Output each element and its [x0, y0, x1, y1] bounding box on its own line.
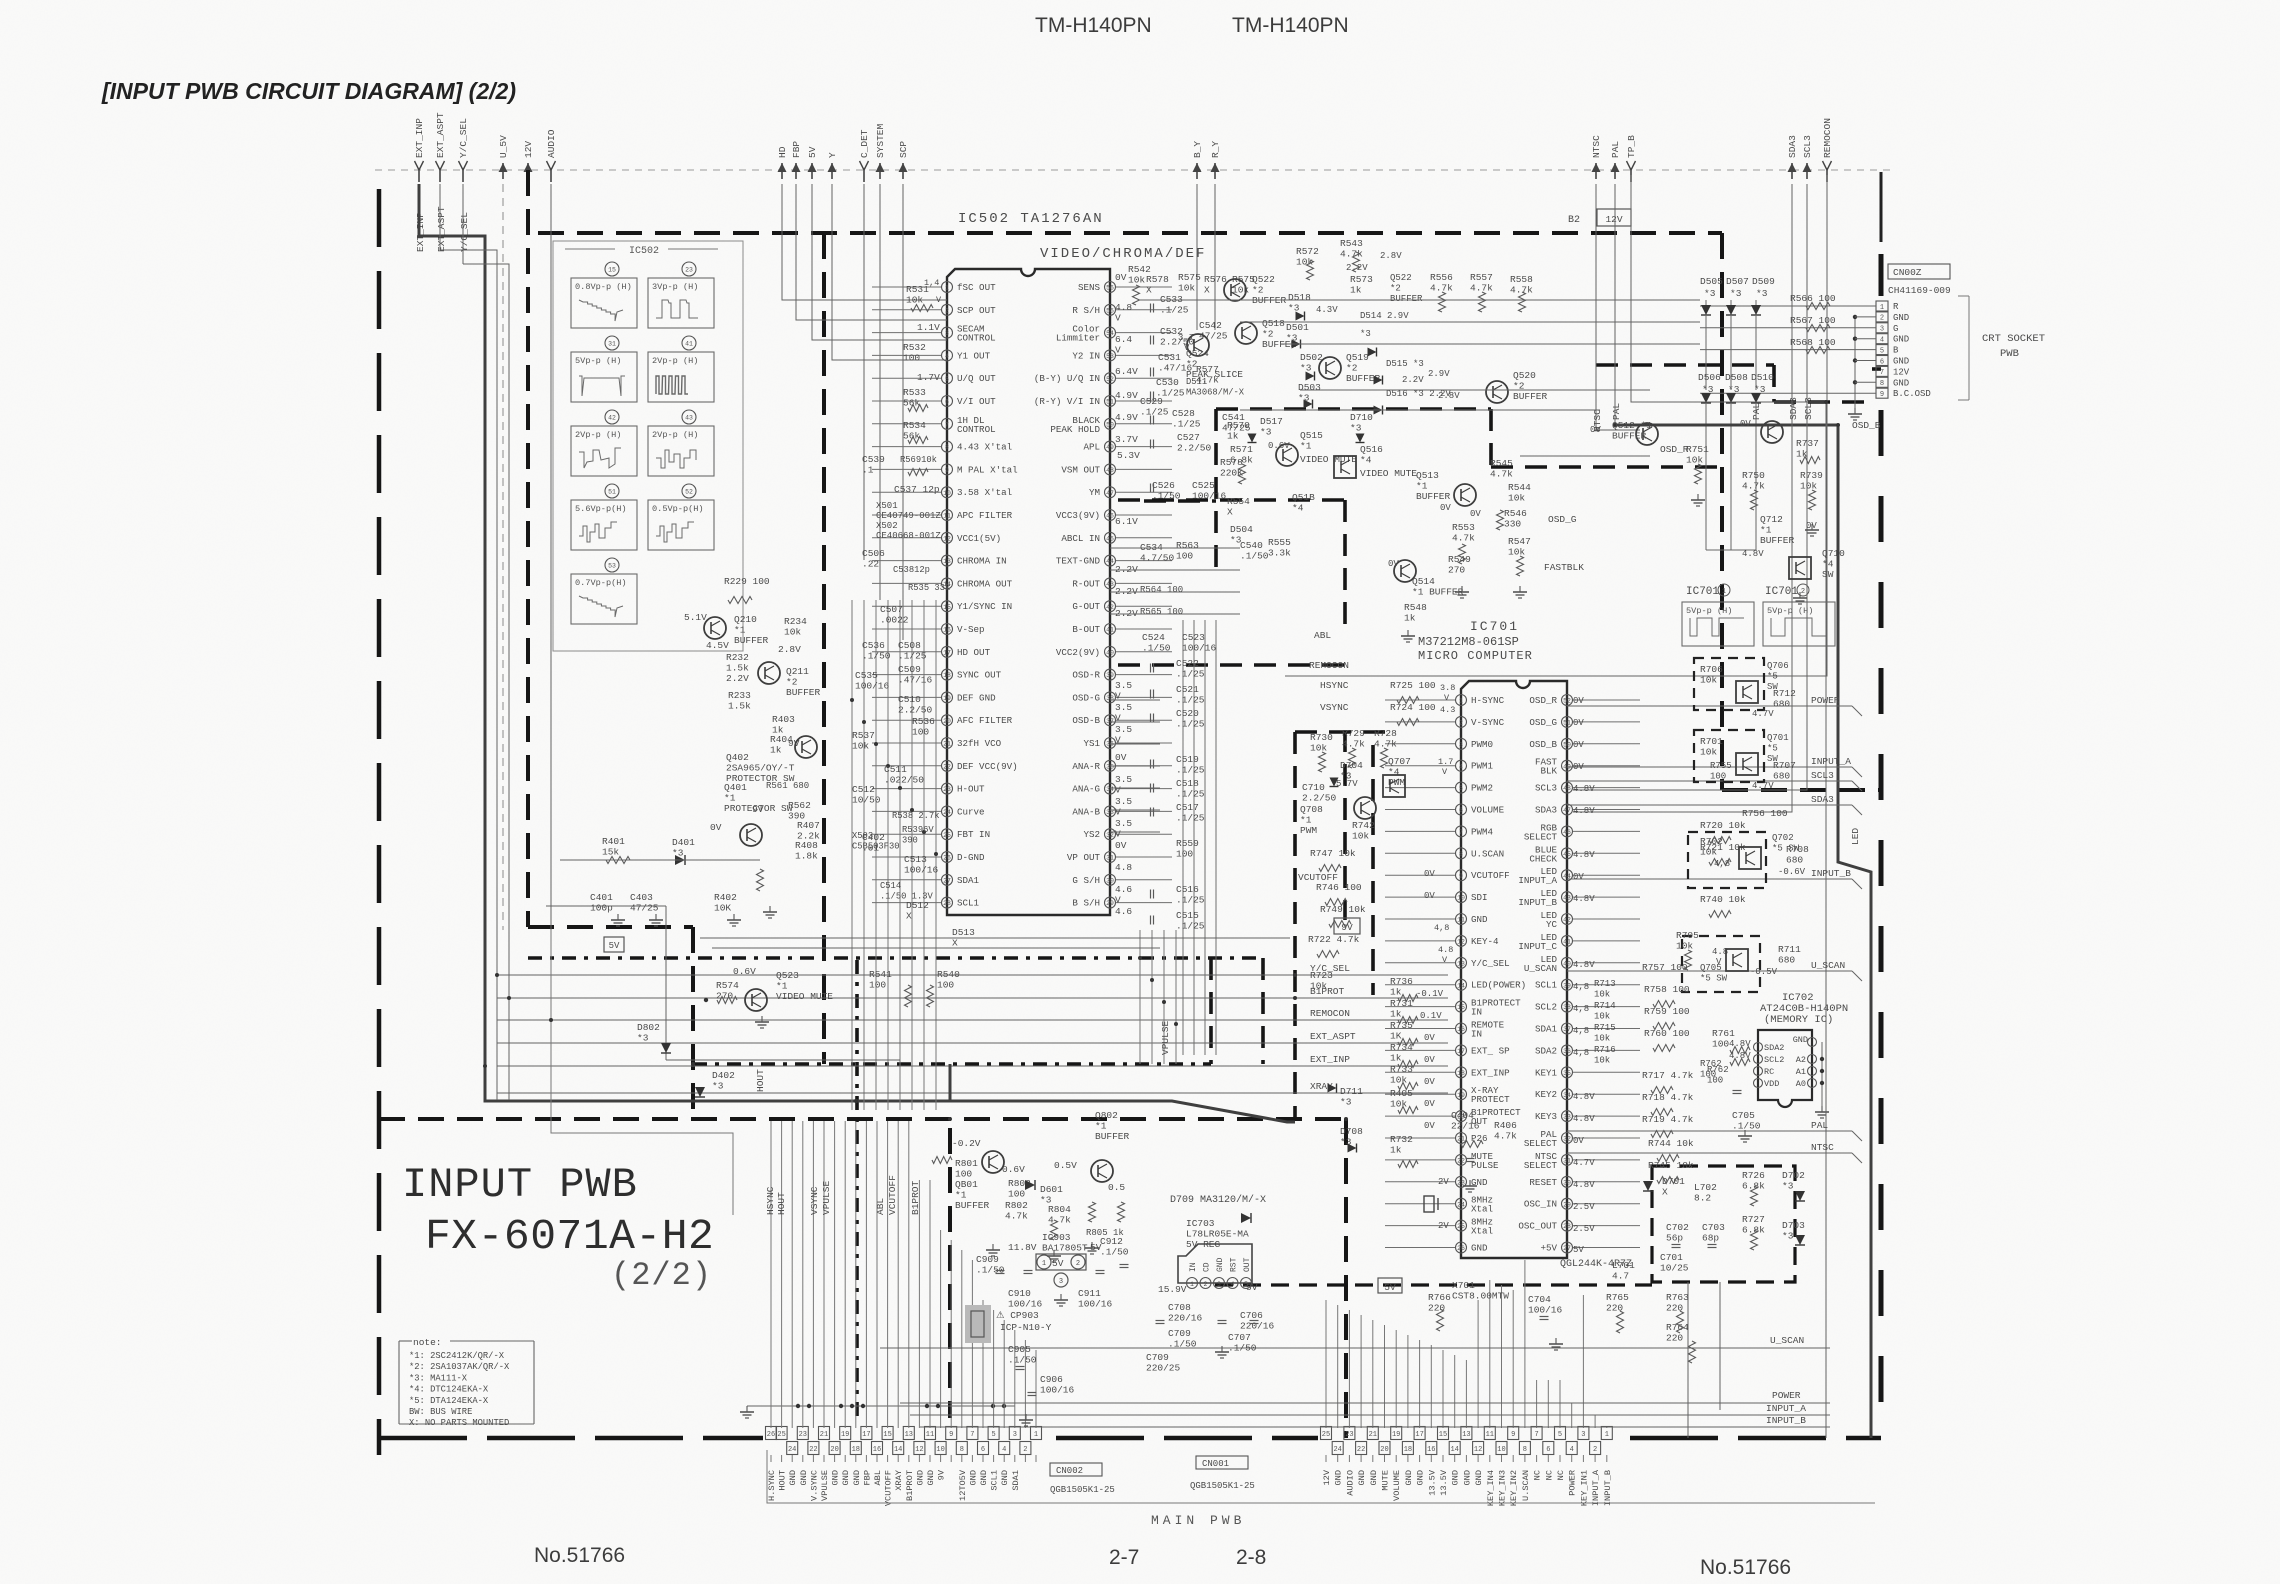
svg-text:V: V: [1115, 895, 1121, 906]
svg-text:100p: 100p: [590, 903, 613, 914]
svg-text:DEF VCC(9V): DEF VCC(9V): [957, 761, 1018, 772]
svg-text:3: 3: [1459, 741, 1463, 748]
svg-text:R408: R408: [795, 840, 818, 851]
svg-text:YC: YC: [1546, 919, 1558, 930]
svg-text:12V: 12V: [523, 141, 534, 158]
svg-text:G: G: [1893, 324, 1898, 334]
svg-text:NC: NC: [1556, 1470, 1566, 1480]
svg-text:0V: 0V: [1424, 1121, 1435, 1131]
svg-text:15: 15: [608, 267, 616, 274]
svg-text:C_DET: C_DET: [859, 129, 870, 158]
svg-text:⚠ CP903: ⚠ CP903: [996, 1310, 1039, 1321]
svg-text:5.6Vp-p(H): 5.6Vp-p(H): [575, 504, 627, 514]
svg-text:.1/25: .1/25: [1176, 719, 1205, 730]
svg-text:C512: C512: [852, 784, 875, 795]
svg-text:VSYNC: VSYNC: [1320, 702, 1349, 713]
svg-text:R561 680: R561 680: [766, 781, 809, 791]
svg-text:*1: *1: [1095, 1121, 1107, 1132]
svg-text:4.3V: 4.3V: [1316, 305, 1338, 315]
svg-text:.47/16: .47/16: [898, 675, 933, 686]
svg-text:R555: R555: [1268, 537, 1291, 548]
svg-text:FBP: FBP: [862, 1470, 872, 1485]
svg-text:1: 1: [1605, 1431, 1609, 1439]
svg-text:Q523: Q523: [776, 970, 799, 981]
svg-text:Q514: Q514: [1412, 576, 1435, 587]
svg-text:GND: GND: [852, 1470, 862, 1485]
svg-text:14: 14: [894, 1446, 902, 1454]
svg-text:PWM1: PWM1: [1471, 761, 1494, 772]
svg-text:R717 4.7k: R717 4.7k: [1642, 1070, 1694, 1081]
svg-text:100/16: 100/16: [1040, 1385, 1075, 1396]
svg-text:Q701: Q701: [1767, 733, 1789, 743]
svg-text:VDD: VDD: [1764, 1079, 1779, 1089]
svg-text:ABL: ABL: [873, 1470, 883, 1485]
svg-text:[INPUT PWB CIRCUIT DIAGRAM] (2: [INPUT PWB CIRCUIT DIAGRAM] (2/2): [101, 78, 516, 104]
svg-text:5Vp-p (H): 5Vp-p (H): [1686, 606, 1732, 616]
svg-text:KEY2: KEY2: [1535, 1089, 1557, 1100]
svg-text:R229 100: R229 100: [724, 576, 770, 587]
svg-text:46: 46: [1106, 513, 1114, 520]
svg-text:R715: R715: [1594, 1023, 1616, 1033]
svg-text:24: 24: [1333, 1446, 1341, 1454]
svg-text:4.8V: 4.8V: [1742, 549, 1764, 559]
svg-text:YS1: YS1: [1083, 738, 1100, 749]
svg-text:2SA965/OY/-T: 2SA965/OY/-T: [726, 763, 795, 774]
svg-text:11: 11: [943, 513, 951, 520]
svg-text:15.9V: 15.9V: [1158, 1284, 1187, 1295]
svg-text:X: X: [906, 911, 912, 922]
svg-text:45: 45: [1106, 535, 1114, 542]
svg-text:10k: 10k: [1700, 747, 1717, 758]
svg-text:Q518: Q518: [1262, 318, 1285, 329]
svg-text:0V: 0V: [1470, 509, 1481, 519]
svg-text:POWER: POWER: [1772, 1390, 1801, 1401]
svg-text:R559: R559: [1176, 838, 1199, 849]
svg-text:14: 14: [1457, 982, 1465, 989]
svg-text:220/16: 220/16: [1240, 1321, 1275, 1332]
svg-text:D505: D505: [1700, 276, 1723, 287]
svg-text:100: 100: [1710, 772, 1726, 782]
svg-text:CHROMA IN: CHROMA IN: [957, 556, 1007, 567]
svg-text:R541: R541: [869, 969, 892, 980]
svg-text:.1: .1: [862, 465, 874, 476]
svg-text:100: 100: [912, 727, 929, 738]
svg-text:SCL1: SCL1: [957, 898, 980, 909]
svg-text:(2/2): (2/2): [611, 1257, 712, 1294]
svg-text:X501: X501: [876, 501, 898, 511]
svg-text:55: 55: [1106, 307, 1114, 314]
svg-text:4.8V: 4.8V: [1573, 1114, 1595, 1124]
svg-text:51: 51: [1106, 399, 1114, 406]
svg-text:B-OUT: B-OUT: [1072, 624, 1100, 635]
svg-text:KEY-4: KEY-4: [1471, 936, 1499, 947]
svg-text:C708: C708: [1168, 1302, 1191, 1313]
svg-text:R536: R536: [912, 716, 935, 727]
svg-text:U_SCAN: U_SCAN: [1811, 960, 1845, 971]
svg-text:2.2/50: 2.2/50: [1302, 793, 1337, 804]
svg-text:4.7k: 4.7k: [1048, 1215, 1071, 1226]
svg-text:GND: GND: [788, 1470, 798, 1485]
svg-text:1: 1: [1459, 698, 1463, 705]
svg-text:R756 100: R756 100: [1742, 808, 1788, 819]
svg-text:HD: HD: [777, 146, 788, 158]
svg-text:.1/25: .1/25: [1176, 789, 1205, 800]
svg-text:SCL3: SCL3: [1535, 783, 1557, 794]
svg-text:12: 12: [943, 535, 951, 542]
svg-text:C705: C705: [1732, 1110, 1755, 1121]
svg-text:VPULSE: VPULSE: [1160, 1020, 1171, 1055]
svg-text:INPUT_A: INPUT_A: [1811, 756, 1851, 767]
svg-text:No.51766: No.51766: [1700, 1556, 1791, 1579]
svg-text:C906: C906: [1040, 1374, 1063, 1385]
svg-text:D515 *3: D515 *3: [1386, 359, 1424, 369]
svg-text:4.7k: 4.7k: [1430, 283, 1453, 294]
svg-text:KEY3: KEY3: [1535, 1111, 1557, 1122]
svg-text:41: 41: [1106, 627, 1114, 634]
svg-text:2.5V: 2.5V: [1573, 1224, 1595, 1234]
svg-text:26: 26: [1457, 1245, 1465, 1252]
svg-text:CE40668-001Z: CE40668-001Z: [876, 531, 941, 541]
svg-text:17: 17: [1415, 1431, 1423, 1439]
svg-text:4,8: 4,8: [1573, 1026, 1589, 1036]
svg-text:D402: D402: [712, 1070, 735, 1081]
svg-text:RC: RC: [1764, 1067, 1774, 1077]
svg-text:0V: 0V: [1388, 559, 1399, 569]
svg-text:R712: R712: [1773, 688, 1796, 699]
svg-text:PEAK HOLD: PEAK HOLD: [1050, 424, 1100, 435]
svg-text:3.5: 3.5: [1115, 680, 1132, 691]
svg-text:R763: R763: [1666, 1292, 1689, 1303]
svg-text:100: 100: [955, 1169, 972, 1180]
svg-text:R747 10k: R747 10k: [1310, 848, 1356, 859]
svg-text:BUFFER: BUFFER: [1612, 431, 1647, 442]
svg-text:10: 10: [936, 1446, 944, 1454]
svg-text:*3: *3: [1782, 1181, 1794, 1192]
svg-text:D501: D501: [1286, 322, 1309, 333]
svg-text:50: 50: [1563, 741, 1571, 748]
svg-text:D504: D504: [1230, 524, 1253, 535]
svg-text:EXT_ASPT: EXT_ASPT: [436, 206, 447, 252]
svg-text:Y2 IN: Y2 IN: [1072, 350, 1100, 361]
svg-text:10k: 10k: [784, 627, 801, 638]
svg-text:R403: R403: [772, 714, 795, 725]
svg-text:B.C.OSD: B.C.OSD: [1893, 389, 1931, 399]
svg-text:CHECK: CHECK: [1529, 853, 1557, 864]
svg-text:OSC_IN: OSC_IN: [1524, 1199, 1557, 1210]
svg-text:V: V: [1115, 313, 1121, 324]
svg-text:10k: 10k: [1676, 941, 1693, 952]
svg-text:1.7: 1.7: [1438, 757, 1453, 767]
svg-text:SDA3: SDA3: [1535, 805, 1557, 816]
svg-text:2: 2: [1593, 1446, 1597, 1454]
svg-text:*3: *3: [1360, 329, 1371, 339]
svg-text:*4: *4: [1822, 559, 1834, 570]
svg-text:.1/50: .1/50: [1008, 1355, 1037, 1366]
svg-text:R706: R706: [1700, 664, 1723, 675]
svg-text:3: 3: [1880, 326, 1884, 334]
svg-text:X: X: [1204, 285, 1210, 296]
svg-text:25: 25: [943, 832, 951, 839]
svg-text:0V: 0V: [1590, 425, 1601, 435]
svg-text:C507: C507: [880, 604, 903, 615]
svg-text:Q519: Q519: [1346, 352, 1369, 363]
svg-text:R745 10k: R745 10k: [1648, 1160, 1694, 1171]
svg-text:100/16: 100/16: [1078, 1299, 1113, 1310]
svg-text:IC903: IC903: [1042, 1232, 1071, 1243]
svg-text:KEY_IN1: KEY_IN1: [1579, 1470, 1589, 1506]
svg-text:GND: GND: [1893, 313, 1909, 323]
svg-text:6: 6: [1459, 807, 1463, 814]
svg-text:R802: R802: [1005, 1200, 1028, 1211]
svg-text:3.5: 3.5: [1115, 774, 1132, 785]
svg-text:ABL: ABL: [1314, 630, 1331, 641]
svg-text:R554: R554: [1227, 496, 1250, 507]
svg-text:17: 17: [1457, 1048, 1465, 1055]
svg-text:C542: C542: [1199, 320, 1222, 331]
svg-text:680: 680: [1786, 855, 1803, 866]
svg-text:10k: 10k: [1390, 1075, 1407, 1086]
svg-text:48: 48: [1106, 467, 1114, 474]
svg-text:3: 3: [1581, 1431, 1585, 1439]
svg-text:10/25: 10/25: [1660, 1263, 1689, 1274]
svg-text:SCL3: SCL3: [1802, 135, 1813, 158]
svg-text:BUFFER: BUFFER: [1095, 1131, 1130, 1142]
svg-text:GND: GND: [1357, 1470, 1367, 1485]
svg-text:5V: 5V: [1384, 1282, 1396, 1293]
svg-text:10: 10: [943, 490, 951, 497]
svg-text:22: 22: [809, 1446, 817, 1454]
svg-text:V: V: [1115, 785, 1121, 796]
svg-text:4,8: 4,8: [1714, 859, 1730, 869]
svg-text:*1: *1: [1416, 481, 1428, 492]
svg-text:5: 5: [991, 1431, 995, 1439]
svg-text:36: 36: [1563, 1048, 1571, 1055]
svg-text:VIDEO/CHROMA/DEF: VIDEO/CHROMA/DEF: [1040, 246, 1206, 262]
svg-text:8: 8: [1523, 1446, 1527, 1454]
svg-text:R720 10k: R720 10k: [1700, 820, 1746, 831]
svg-text:INPUT_C: INPUT_C: [1518, 941, 1557, 952]
svg-text:EXT_ SP: EXT_ SP: [1471, 1045, 1510, 1056]
svg-text:SDA1: SDA1: [957, 875, 980, 886]
svg-text:GND: GND: [915, 1470, 925, 1485]
svg-text:R56910k: R56910k: [900, 455, 937, 465]
svg-text:2Vp-p (H): 2Vp-p (H): [652, 356, 698, 366]
svg-text:41: 41: [1563, 939, 1571, 946]
svg-text:.01: .01: [862, 843, 879, 854]
svg-text:X: X: [1146, 285, 1152, 296]
svg-text:PWM2: PWM2: [1471, 783, 1493, 794]
svg-text:FX-6071A-H2: FX-6071A-H2: [425, 1212, 714, 1261]
svg-text:4.8V: 4.8V: [1573, 806, 1595, 816]
svg-text:V: V: [1115, 807, 1121, 818]
svg-text:C527: C527: [1177, 432, 1200, 443]
svg-text:IC701: IC701: [1470, 619, 1519, 634]
svg-text:R718 4.7k: R718 4.7k: [1642, 1092, 1694, 1103]
svg-text:BUFFER: BUFFER: [1513, 391, 1548, 402]
svg-text:CHROMA OUT: CHROMA OUT: [957, 578, 1013, 589]
svg-text:2V: 2V: [1438, 1177, 1449, 1187]
svg-text:4.8V: 4.8V: [1573, 1180, 1595, 1190]
svg-text:C702: C702: [1666, 1222, 1689, 1233]
svg-text:R766: R766: [1428, 1292, 1451, 1303]
svg-text:GND: GND: [1893, 357, 1909, 367]
svg-text:R401: R401: [602, 836, 625, 847]
svg-text:9: 9: [1459, 873, 1463, 880]
svg-text:47: 47: [1563, 807, 1571, 814]
svg-text:*1: *1: [1760, 525, 1772, 536]
svg-text:C509: C509: [898, 664, 921, 675]
svg-text:17: 17: [943, 649, 951, 656]
svg-text:1.8k: 1.8k: [795, 851, 818, 862]
svg-text:220: 220: [1428, 1303, 1445, 1314]
svg-text:R728: R728: [1374, 728, 1397, 739]
svg-text:12V: 12V: [1893, 367, 1910, 377]
svg-text:CST8.00MTW: CST8.00MTW: [1452, 1291, 1509, 1302]
svg-text:5Vp-p (H): 5Vp-p (H): [575, 356, 621, 366]
svg-text:0V: 0V: [1573, 762, 1584, 772]
svg-text:16: 16: [873, 1446, 881, 1454]
svg-text:R233: R233: [728, 690, 751, 701]
svg-text:*1: *1: [1300, 441, 1312, 452]
svg-text:0V: 0V: [1424, 1077, 1435, 1087]
svg-text:*2: *2: [786, 677, 798, 688]
svg-text:34: 34: [1106, 786, 1114, 793]
svg-text:APC FILTER: APC FILTER: [957, 510, 1013, 521]
svg-text:40: 40: [1563, 960, 1571, 967]
svg-text:Curve: Curve: [957, 806, 985, 817]
svg-text:20: 20: [943, 718, 951, 725]
svg-text:HOUT: HOUT: [778, 1470, 788, 1491]
svg-text:*3: *3: [1340, 1097, 1352, 1108]
svg-text:R727: R727: [1742, 1214, 1765, 1225]
svg-text:R761: R761: [1712, 1028, 1735, 1039]
svg-text:2.2V: 2.2V: [1402, 375, 1424, 385]
svg-text:VCUTOFF: VCUTOFF: [884, 1470, 894, 1506]
svg-text:IN: IN: [1471, 1007, 1482, 1018]
svg-text:100: 100: [1712, 1039, 1729, 1050]
svg-text:42: 42: [1563, 917, 1571, 924]
svg-text:V: V: [1115, 345, 1121, 356]
svg-text:MICRO COMPUTER: MICRO COMPUTER: [1418, 649, 1533, 663]
svg-text:1K: 1K: [1390, 1031, 1402, 1042]
svg-text:EXT_INP: EXT_INP: [414, 118, 425, 158]
svg-text:4.7/50: 4.7/50: [1140, 553, 1175, 564]
svg-text:39: 39: [1106, 672, 1114, 679]
svg-text:R729: R729: [1342, 728, 1365, 739]
svg-text:POWER: POWER: [1568, 1470, 1578, 1496]
svg-text:QGB1505K1-25: QGB1505K1-25: [1050, 1485, 1115, 1495]
svg-text:12: 12: [1457, 939, 1465, 946]
svg-text:IC502 TA1276AN: IC502 TA1276AN: [958, 211, 1104, 227]
svg-text:20: 20: [1380, 1446, 1388, 1454]
svg-text:INPUT_B: INPUT_B: [1518, 897, 1557, 908]
svg-text:5Vp-p (H): 5Vp-p (H): [1767, 606, 1813, 616]
svg-text:U/Q OUT: U/Q OUT: [957, 373, 996, 384]
svg-text:REMOCON: REMOCON: [1822, 118, 1833, 158]
svg-text:U_5V: U_5V: [498, 135, 509, 158]
svg-text:23: 23: [799, 1431, 807, 1439]
svg-text:BUFFER: BUFFER: [1760, 535, 1795, 546]
svg-text:10k: 10k: [1800, 481, 1817, 492]
svg-text:0.7Vp-p(H): 0.7Vp-p(H): [575, 578, 627, 588]
svg-text:R572: R572: [1296, 246, 1319, 257]
svg-text:*2: *2: [1252, 285, 1264, 296]
svg-text:VCUTOFF: VCUTOFF: [1471, 870, 1510, 881]
svg-text:2V: 2V: [1438, 1221, 1449, 1231]
svg-text:0V: 0V: [1424, 1033, 1435, 1043]
svg-text:Q705: Q705: [1700, 963, 1722, 973]
svg-text:C537 12p: C537 12p: [894, 484, 940, 495]
svg-text:-0.1V: -0.1V: [1416, 989, 1444, 999]
svg-text:1: 1: [1722, 588, 1726, 596]
svg-text:.1/50: .1/50: [1228, 1343, 1257, 1354]
svg-text:D401: D401: [672, 837, 695, 848]
svg-text:270: 270: [1448, 565, 1465, 576]
svg-text:43: 43: [685, 415, 693, 422]
svg-text:R744 10k: R744 10k: [1648, 1138, 1694, 1149]
svg-text:4.7V: 4.7V: [1752, 709, 1774, 719]
svg-text:10k: 10k: [1296, 257, 1313, 268]
svg-text:SCL3: SCL3: [1811, 770, 1834, 781]
svg-text:R538 2.7k: R538 2.7k: [892, 811, 940, 821]
svg-text:100/16: 100/16: [904, 865, 939, 876]
svg-text:R716: R716: [1594, 1045, 1616, 1055]
svg-text:Q524: Q524: [1186, 348, 1209, 359]
svg-text:DEF GND: DEF GND: [957, 692, 996, 703]
svg-text:NC: NC: [1533, 1470, 1543, 1480]
svg-text:42: 42: [608, 415, 616, 422]
svg-text:HSYNC: HSYNC: [1320, 680, 1349, 691]
svg-text:Q802: Q802: [1095, 1110, 1118, 1121]
svg-text:0V: 0V: [1440, 503, 1451, 513]
svg-text:D509: D509: [1752, 276, 1775, 287]
svg-text:D517: D517: [1260, 416, 1283, 427]
svg-text:.1/50: .1/50: [1152, 491, 1181, 502]
svg-text:C401: C401: [590, 892, 613, 903]
svg-text:Y/C_SEL: Y/C_SEL: [1471, 958, 1510, 969]
svg-text:1.7V: 1.7V: [917, 372, 940, 383]
svg-text:IN: IN: [1189, 1262, 1198, 1272]
svg-text:10/50: 10/50: [852, 795, 881, 806]
svg-text:31: 31: [1106, 855, 1114, 862]
svg-text:100: 100: [937, 980, 954, 991]
svg-text:R534: R534: [903, 420, 926, 431]
svg-text:CN00Z: CN00Z: [1893, 267, 1922, 278]
svg-text:R751: R751: [1686, 444, 1709, 455]
svg-text:1k: 1k: [1390, 987, 1402, 998]
svg-text:21: 21: [943, 741, 951, 748]
svg-text:R739: R739: [1800, 470, 1823, 481]
svg-text:*3: *3: [1288, 303, 1300, 314]
svg-text:OUT: OUT: [1243, 1257, 1252, 1272]
svg-text:34: 34: [1563, 1092, 1571, 1099]
svg-text:BUFFER: BUFFER: [1416, 491, 1451, 502]
svg-text:19: 19: [1457, 1092, 1465, 1099]
svg-text:10k: 10k: [1178, 283, 1195, 294]
svg-text:11.8V: 11.8V: [1008, 1242, 1037, 1253]
svg-text:FBP: FBP: [791, 141, 802, 158]
svg-text:3.58 X'tal: 3.58 X'tal: [957, 487, 1012, 498]
svg-text:L78LR05E-MA: L78LR05E-MA: [1186, 1229, 1249, 1240]
svg-text:C526: C526: [1152, 480, 1175, 491]
svg-text:R547: R547: [1508, 536, 1531, 547]
svg-text:GND: GND: [1471, 1243, 1488, 1254]
svg-text:VOLUME: VOLUME: [1471, 805, 1505, 816]
svg-text:R532: R532: [903, 342, 926, 353]
svg-text:2-8: 2-8: [1236, 1546, 1266, 1569]
svg-text:INPUT_B: INPUT_B: [1603, 1470, 1613, 1506]
svg-text:35: 35: [1106, 763, 1114, 770]
